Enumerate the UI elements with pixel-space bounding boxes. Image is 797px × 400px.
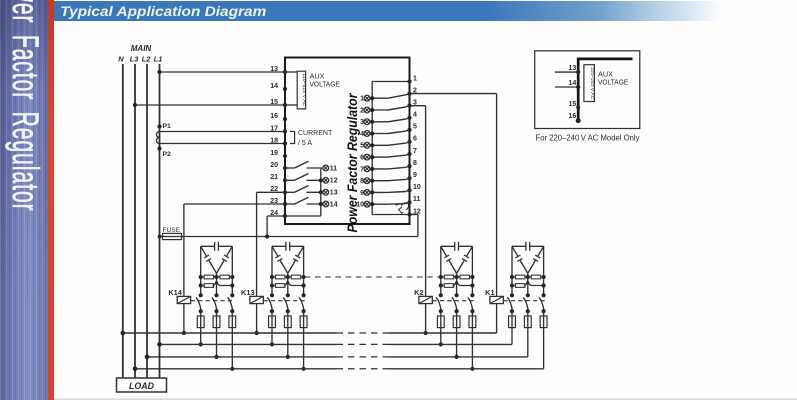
contactor K1 linkage (dashed): [504, 300, 547, 302]
common wire pin 24 (left internal): [285, 215, 321, 217]
svg-text:L3: L3: [130, 55, 140, 64]
svg-text:21: 21: [270, 174, 278, 181]
internal contact output 8 (pin 9): [360, 178, 409, 185]
wire pin 23 to contactor K14 coil: [184, 203, 285, 205]
contactor K14 pole 3: [228, 295, 235, 316]
wire coil K1 to neutral bus: [496, 304, 498, 333]
pin 20: [283, 166, 287, 170]
pin 21: [283, 178, 287, 182]
inset pin 15: [576, 105, 580, 109]
wire mains L1 vertical: [159, 64, 161, 378]
svg-text:12: 12: [330, 178, 338, 185]
contactor K2 pole 2: [452, 295, 459, 316]
contactor K1 pole 3: [539, 295, 546, 316]
pin 8: [407, 164, 411, 168]
svg-text:K13: K13: [241, 288, 255, 297]
discharge resistor RK2b: [457, 275, 473, 279]
internal contact output 5 (pin 6): [360, 142, 409, 150]
svg-text:220–240 V AC: 220–240 V AC: [589, 67, 595, 99]
fuse bank K1 pole 2: [524, 316, 531, 328]
contactor K14 pole 1: [196, 295, 203, 316]
fuse bank K14 pole 2: [213, 316, 220, 328]
fuse bank K13 pole 2: [284, 316, 291, 328]
wire L3 to pin 15 (aux voltage): [135, 104, 285, 106]
sidebar panel: [0, 0, 48, 400]
internal contact output 10 (pin 11): [356, 201, 409, 208]
svg-text:L1: L1: [154, 55, 163, 64]
wire coil K14 to neutral bus: [183, 304, 185, 333]
wire pin 12 exit (down from pin12 to fuse run): [417, 215, 419, 237]
svg-text:16: 16: [569, 113, 577, 120]
contactor K13 linkage (dashed): [264, 300, 307, 302]
current transformer CT on L1 (P1/P2): [156, 124, 161, 150]
wire bank K2 to phase buses: [439, 328, 475, 371]
svg-text:3: 3: [360, 119, 364, 126]
svg-text:8: 8: [413, 160, 417, 167]
inset pin 13: [555, 71, 578, 73]
common wire pin 1 (right internal): [371, 82, 373, 215]
discharge resistor RK1a: [512, 275, 528, 279]
svg-text:11: 11: [413, 196, 421, 203]
svg-text:9: 9: [360, 190, 364, 197]
fuse bank K13 pole 1: [269, 316, 276, 328]
inset pin 14: [555, 86, 578, 88]
svg-text:4: 4: [413, 112, 417, 119]
pin 5: [407, 128, 411, 132]
svg-text:3: 3: [413, 100, 417, 107]
contactor K14 linkage (dashed): [191, 300, 236, 302]
regulator U1 outline: [285, 58, 410, 225]
load box LOAD: [117, 378, 167, 392]
svg-text:13: 13: [569, 65, 577, 72]
pin 19: [283, 154, 287, 158]
svg-text:CURRENT: CURRENT: [298, 130, 333, 137]
page bottom edge: [54, 398, 797, 400]
capacitor CK2a (top of delta, bank K2): [441, 242, 473, 251]
capacitor CK14b (left leg of delta): [201, 246, 217, 273]
capacitor CK13c (right leg of delta): [288, 246, 304, 273]
internal contact output 7 (pin 8): [360, 166, 409, 173]
fuse bank K1 pole 1: [509, 316, 516, 328]
fuse bank K14 pole 3: [229, 316, 236, 328]
svg-text:9: 9: [413, 172, 417, 179]
fuse F1: [163, 233, 182, 239]
internal contact output 1 (pin 2): [360, 94, 409, 103]
svg-text:16: 16: [270, 113, 278, 120]
svg-text:14: 14: [569, 80, 577, 87]
pin 6: [407, 140, 411, 144]
pin 9: [407, 176, 411, 180]
svg-text:24: 24: [270, 210, 278, 217]
wire CT S2 to pin 18: [160, 143, 286, 145]
dashed link between banks (node row): [305, 276, 440, 278]
internal contact 13 (pin 22): [285, 186, 338, 197]
internal contact output 2 (pin 3): [360, 106, 409, 115]
svg-text:LOAD: LOAD: [129, 381, 155, 391]
discharge resistor RK2c: [441, 281, 473, 287]
capacitor CK13b (left leg of delta): [272, 246, 288, 273]
svg-text:8: 8: [360, 178, 364, 185]
svg-text:22: 22: [270, 186, 278, 193]
svg-text:1: 1: [413, 75, 417, 82]
contactor K2 linkage (dashed): [433, 300, 476, 302]
pin 3: [407, 104, 411, 108]
pin 15: [283, 103, 287, 107]
contactor K14 pole 2: [212, 295, 219, 316]
svg-text:7: 7: [413, 148, 417, 155]
discharge resistor RK1b: [528, 275, 544, 279]
svg-text:P1: P1: [163, 123, 172, 130]
capacitor CK2b (left leg of delta): [441, 246, 457, 273]
wire mains N vertical: [122, 64, 124, 378]
capacitor CK2c (right leg of delta): [457, 246, 473, 273]
fuse bank K2 pole 2: [453, 316, 460, 328]
pin 16: [283, 117, 287, 121]
pin 10: [407, 188, 411, 192]
wire L1 to pin 13 (aux voltage): [160, 71, 286, 73]
internal contact output 3 (pin 4): [360, 118, 409, 126]
discharge resistor RK13c: [272, 281, 304, 287]
contactor K13 pole 1: [267, 295, 274, 316]
contactor K13 pole 3: [299, 295, 306, 316]
internal contact 12 (pin 21): [285, 174, 338, 185]
svg-text:/ 5 A: / 5 A: [298, 140, 312, 147]
svg-text:19: 19: [270, 150, 278, 157]
wire pin 24 to fuse run: [267, 215, 285, 217]
discharge resistor RK13b: [288, 275, 304, 279]
wire coil K2 to neutral bus: [425, 304, 427, 333]
svg-text:14: 14: [330, 201, 338, 208]
wire pin 22 to contactor K13 coil: [257, 191, 285, 193]
svg-text:11: 11: [330, 165, 338, 172]
wire mains L2 vertical: [146, 64, 148, 378]
pin 17: [283, 129, 287, 133]
svg-text:17: 17: [270, 125, 278, 132]
svg-text:18: 18: [270, 137, 278, 144]
contactor K2 pole 3: [468, 295, 475, 316]
svg-text:1: 1: [360, 96, 364, 103]
capacitor CK14c (right leg of delta): [217, 246, 233, 273]
internal contact output 4 (pin 5): [360, 130, 409, 138]
svg-text:13: 13: [270, 66, 278, 73]
svg-text:P2: P2: [163, 151, 172, 158]
pin 12: [407, 212, 411, 216]
contactor K13 coil: [250, 296, 263, 303]
contactor K2 coil: [419, 296, 432, 303]
discharge resistor RK14a: [201, 275, 217, 279]
capacitor CK1b (left leg of delta): [512, 246, 528, 273]
contactor K2 pole 1: [436, 295, 443, 316]
fuse bank K13 pole 3: [300, 316, 307, 328]
fuse bank K1 pole 3: [540, 316, 547, 328]
wire CT S1 to pin 17: [160, 131, 286, 133]
svg-text:VOLTAGE: VOLTAGE: [310, 80, 340, 89]
discharge resistor RK1c: [512, 281, 544, 287]
svg-text:110–415 V AC: 110–415 V AC: [301, 73, 307, 106]
internal contact 14 (pin 23): [285, 197, 338, 208]
svg-text:15: 15: [270, 99, 278, 106]
pin 13: [283, 70, 287, 74]
discharge resistor RK2a: [441, 275, 457, 279]
svg-text:K1: K1: [485, 288, 494, 297]
capacitor CK13a (top of delta, bank K13): [272, 242, 304, 251]
pin 22: [283, 190, 287, 194]
svg-text:5: 5: [413, 124, 417, 131]
svg-text:2: 2: [360, 107, 364, 114]
wire mains L3 vertical: [134, 64, 136, 378]
labels N L3 L2 L1: [118, 55, 162, 64]
wire bank K1 to phase buses: [512, 328, 544, 369]
svg-text:L2: L2: [142, 55, 152, 64]
svg-text:MAIN: MAIN: [131, 44, 152, 53]
svg-text:2: 2: [413, 87, 417, 94]
wire bank K14 to phase buses: [199, 328, 235, 371]
pin 4: [407, 116, 411, 120]
wire bus phase L1 (bus2): [157, 342, 512, 347]
svg-text:For 220–240 V AC Model Only: For 220–240 V AC Model Only: [536, 132, 641, 142]
internal contact output 9 (pin 10): [360, 190, 409, 197]
red stripe: [48, 0, 55, 400]
svg-text:7: 7: [360, 166, 364, 173]
wire pin 2 to contactor K1 coil: [410, 93, 497, 95]
discharge resistor RK14c: [201, 281, 233, 287]
fuse bank K2 pole 3: [469, 316, 476, 328]
pin 2: [407, 92, 411, 96]
wire coil K13 to neutral bus: [256, 304, 258, 333]
contactor K1 coil: [490, 296, 503, 303]
common wire pin 12 (right internal): [372, 214, 409, 216]
discharge resistor RK14b: [217, 275, 233, 279]
wire bank K14 phase columns: [199, 246, 235, 297]
wire bus neutral (bus1): [121, 331, 497, 336]
fuse bank K14 pole 1: [197, 316, 204, 328]
svg-text:5: 5: [360, 143, 364, 150]
svg-text:4: 4: [360, 131, 364, 138]
svg-text:12: 12: [413, 208, 421, 215]
svg-text:6: 6: [413, 136, 417, 143]
contactor K13 pole 2: [283, 295, 290, 316]
contactor K1 pole 2: [523, 295, 530, 316]
internal contact 11 (pin 20): [285, 161, 337, 172]
svg-text:15: 15: [569, 101, 577, 108]
svg-text:VOLTAGE: VOLTAGE: [598, 77, 628, 86]
pin 1: [407, 79, 411, 83]
pin 14: [283, 87, 287, 91]
contactor K1 pole 1: [507, 295, 514, 316]
inset aux supply box 220-240 V AC: [584, 65, 595, 102]
capacitor CK14a (top of delta, bank K14): [201, 242, 233, 251]
svg-text:Typical Application Diagram: Typical Application Diagram: [60, 4, 266, 20]
capacitor CK1c (right leg of delta): [528, 246, 544, 273]
internal contact output 6 (pin 7): [360, 154, 409, 162]
svg-text:10: 10: [356, 202, 364, 209]
svg-text:23: 23: [270, 198, 278, 205]
svg-text:6: 6: [360, 155, 364, 162]
capacitor CK1a (top of delta, bank K1): [512, 242, 544, 251]
wire L1 to fuse to pin 12 run: [160, 236, 418, 238]
pin 24: [283, 214, 287, 218]
contactor K14 coil: [177, 296, 190, 303]
current input bracket pins 17-18: [290, 132, 295, 144]
svg-text:13: 13: [330, 190, 338, 197]
inset pin 16: [576, 118, 581, 123]
svg-text:N: N: [118, 55, 124, 64]
inset option box: [535, 51, 640, 129]
svg-text:10: 10: [413, 184, 421, 191]
wire bus phase L3 (bus4): [133, 367, 544, 372]
manual test hand icon: [396, 203, 409, 214]
svg-text:Power Factor Regulator: Power Factor Regulator: [345, 92, 361, 232]
discharge resistor RK13a: [272, 275, 288, 279]
pin 7: [407, 152, 411, 156]
header bar: [54, 1, 797, 21]
inset thick aux bus: [578, 59, 632, 121]
wire bank K13 to phase buses: [270, 328, 306, 371]
fuse bank K2 pole 1: [437, 316, 444, 328]
wire bank K2 phase columns: [439, 246, 475, 297]
pin 23: [283, 202, 287, 206]
svg-text:Power Factor Regulator: Power Factor Regulator: [5, 0, 46, 212]
svg-text:20: 20: [270, 162, 278, 169]
wire bank K1 phase columns: [510, 246, 546, 297]
wire bus phase L2 (bus3): [145, 355, 528, 360]
wire bank K13 phase columns: [270, 246, 306, 297]
aux supply box 110-415 V AC: [285, 71, 307, 109]
svg-text:14: 14: [270, 83, 278, 90]
wire pin 3 to contactor K2 coil: [410, 105, 426, 107]
svg-text:K2: K2: [414, 288, 423, 297]
pin 18: [283, 141, 287, 145]
svg-text:K14: K14: [168, 288, 182, 297]
pin 11: [407, 200, 411, 204]
